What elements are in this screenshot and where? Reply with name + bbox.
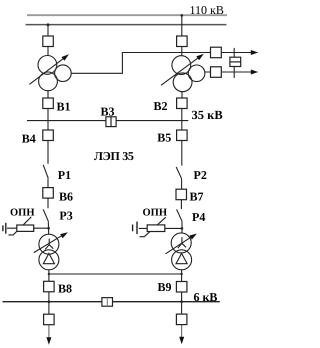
svg-text:Р1: Р1 xyxy=(58,168,71,182)
svg-text:В9: В9 xyxy=(158,280,172,294)
svg-text:35 кВ: 35 кВ xyxy=(192,108,223,122)
svg-text:ОПН: ОПН xyxy=(143,208,168,219)
svg-text:В3: В3 xyxy=(101,104,115,118)
svg-text:В4: В4 xyxy=(22,131,36,145)
svg-text:В2: В2 xyxy=(154,99,168,113)
svg-text:ЛЭП 35: ЛЭП 35 xyxy=(94,149,134,163)
svg-text:В5: В5 xyxy=(157,131,171,145)
svg-text:Р2: Р2 xyxy=(194,168,207,182)
svg-text:В8: В8 xyxy=(58,281,72,295)
svg-text:В7: В7 xyxy=(190,190,204,204)
svg-text:ОПН: ОПН xyxy=(10,207,35,218)
svg-text:110 кВ: 110 кВ xyxy=(190,3,224,17)
svg-text:В6: В6 xyxy=(59,189,73,203)
svg-text:В1: В1 xyxy=(57,100,71,114)
svg-text:Р3: Р3 xyxy=(59,208,72,222)
svg-text:Р4: Р4 xyxy=(192,210,205,224)
svg-text:6 кВ: 6 кВ xyxy=(194,290,218,304)
